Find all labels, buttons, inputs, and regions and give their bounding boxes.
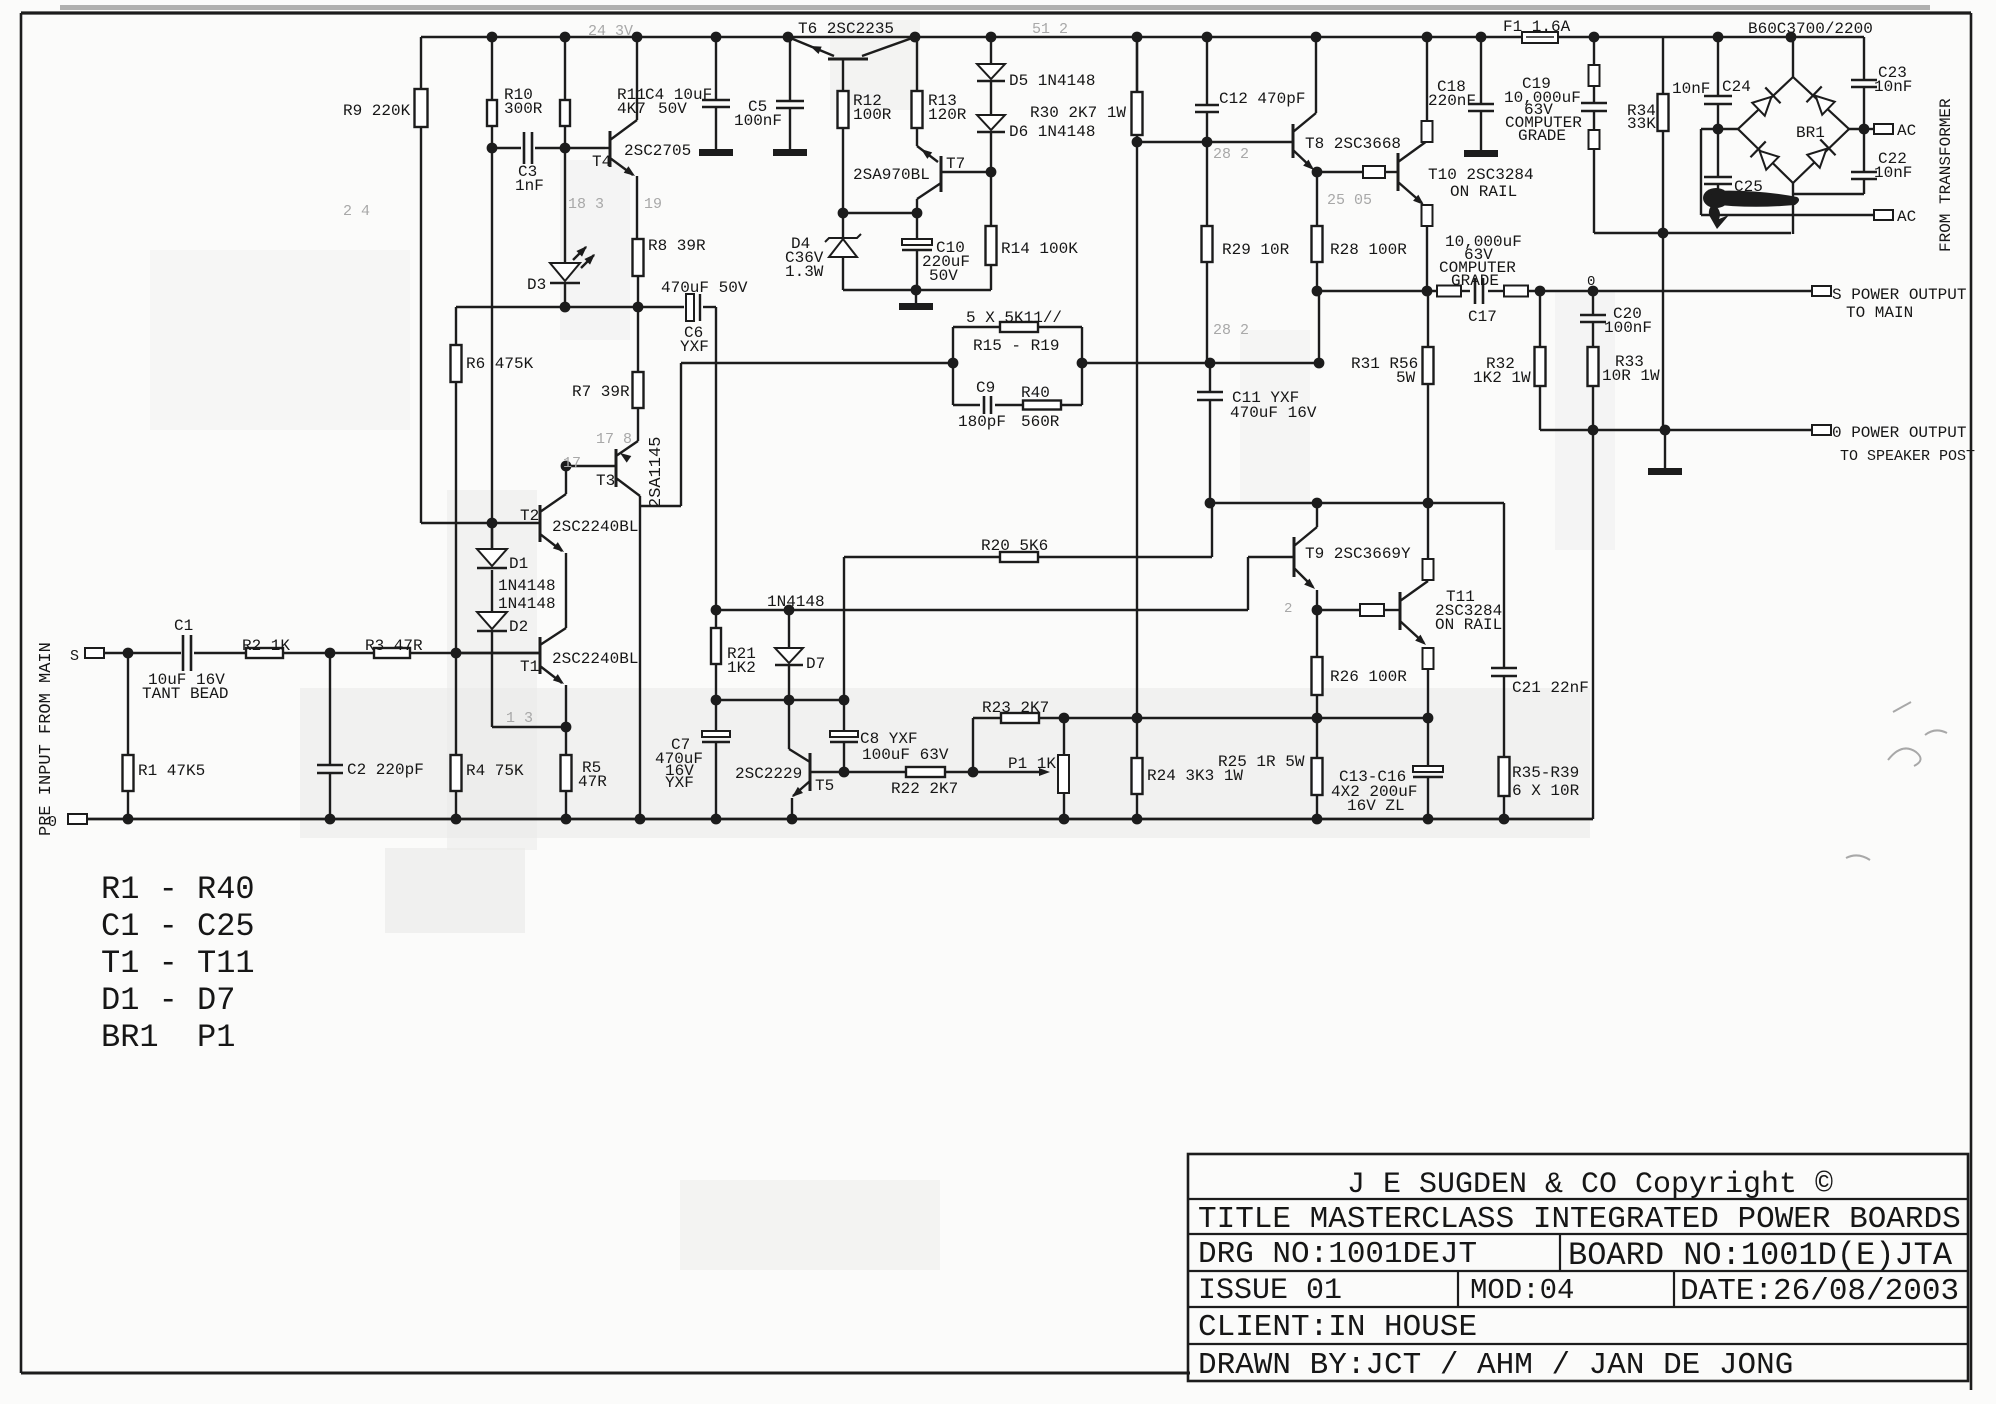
svg-text:1.3W: 1.3W: [785, 263, 824, 281]
ground under C10: [915, 290, 917, 303]
ferrite bead output left: [1437, 286, 1461, 297]
capacitor C22 10nF: [1863, 129, 1865, 171]
svg-text:J E SUGDEN & CO Copyright ©: J E SUGDEN & CO Copyright ©: [1347, 1168, 1833, 1202]
svg-text:100uF 63V: 100uF 63V: [862, 746, 949, 764]
svg-text:1K2: 1K2: [727, 659, 756, 677]
transistor T9 2SC3669Y: [1293, 537, 1296, 577]
svg-text:R35-R39: R35-R39: [1512, 764, 1579, 782]
svg-text:33K: 33K: [1627, 115, 1656, 133]
svg-text:AC: AC: [1897, 122, 1916, 140]
ferrite bead T10 emitter: [1422, 205, 1433, 226]
svg-text:C24: C24: [1722, 78, 1751, 96]
svg-text:1N4148: 1N4148: [498, 577, 556, 595]
svg-text:R28 100R: R28 100R: [1330, 241, 1407, 259]
svg-text:D5 1N4148: D5 1N4148: [1009, 72, 1095, 90]
svg-text:R8 39R: R8 39R: [648, 237, 706, 255]
svg-text:0 POWER OUTPUT: 0 POWER OUTPUT: [1832, 424, 1966, 442]
svg-text:R29 10R: R29 10R: [1222, 241, 1290, 259]
resistor network R15-R19: [952, 327, 954, 405]
ground under C5: [773, 149, 807, 156]
node T1 base junction: [451, 648, 462, 659]
svg-text:2: 2: [1284, 601, 1292, 617]
svg-text:220nF: 220nF: [1428, 92, 1476, 110]
svg-text:2SC2240BL: 2SC2240BL: [552, 650, 638, 668]
title block frame: [1188, 1154, 1968, 1381]
svg-text:6 X 10R: 6 X 10R: [1512, 782, 1580, 800]
capacitor C6: [686, 294, 694, 321]
svg-text:4K7: 4K7: [617, 100, 646, 118]
svg-text:16V ZL: 16V ZL: [1347, 797, 1405, 815]
transistor T2 2SC2240BL: [539, 505, 542, 542]
resistor R14 100K: [990, 172, 992, 226]
capacitor C19 computer grade: [1593, 37, 1595, 65]
svg-text:R1 - R40: R1 - R40: [101, 871, 255, 908]
svg-text:DRG NO:1001DEJT: DRG NO:1001DEJT: [1198, 1237, 1477, 1272]
svg-text:T10 2SC3284: T10 2SC3284: [1428, 166, 1534, 184]
wire feedback to output: [1082, 362, 1319, 364]
capacitor C24 10nF: [1717, 37, 1719, 95]
resistor R34 33K: [1662, 37, 1664, 94]
terminal S power output: [1812, 286, 1831, 296]
svg-text:2SA970BL: 2SA970BL: [853, 166, 930, 184]
capacitor C12 470pF: [1206, 37, 1208, 104]
resistor R28 100R: [1316, 172, 1318, 226]
svg-text:100R: 100R: [853, 106, 892, 124]
svg-text:300R: 300R: [504, 100, 543, 118]
svg-text:28 2: 28 2: [1213, 146, 1249, 163]
wire T2 base from R9: [421, 522, 540, 524]
svg-text:24 3V: 24 3V: [588, 23, 633, 40]
transistor T1 2SC2240BL: [539, 637, 542, 674]
wire D7 node line: [716, 609, 1248, 611]
resistor R5: [565, 727, 567, 755]
ferrite bead T11 base: [1317, 609, 1360, 611]
svg-text:C1: C1: [174, 617, 193, 635]
svg-text:TITLE MASTERCLASS INTEGRATED P: TITLE MASTERCLASS INTEGRATED POWER BOARD…: [1198, 1202, 1961, 1237]
wire driver node line: [1210, 502, 1504, 504]
svg-text:180pF: 180pF: [958, 413, 1006, 431]
svg-text:0: 0: [1587, 274, 1595, 290]
svg-text:25 05: 25 05: [1327, 192, 1372, 209]
svg-text:10R 1W: 10R 1W: [1602, 367, 1660, 385]
svg-text:5 X 5K11//: 5 X 5K11//: [966, 309, 1062, 327]
svg-text:28 2: 28 2: [1213, 322, 1249, 339]
svg-text:D2: D2: [509, 618, 528, 636]
resistor R9: [420, 37, 422, 89]
svg-text:470uF 50V: 470uF 50V: [661, 279, 748, 297]
potentiometer P1 1K: [973, 771, 1044, 773]
wire R33 to bottom rail: [1592, 430, 1594, 819]
capacitor C23 10nF: [1793, 36, 1864, 38]
terminal S input: [85, 648, 104, 658]
zener diode D4 C36V: [842, 213, 844, 239]
svg-text:C2 220pF: C2 220pF: [347, 761, 424, 779]
svg-text:YXF: YXF: [680, 338, 709, 356]
svg-text:T7: T7: [946, 155, 965, 173]
wire C21 branch: [1503, 503, 1505, 667]
svg-text:120R: 120R: [928, 106, 967, 124]
svg-text:T2: T2: [520, 507, 539, 525]
svg-text:50V: 50V: [929, 267, 958, 285]
ground centre 0V: [1664, 430, 1666, 468]
capacitor C5: [789, 37, 791, 100]
svg-text:T4: T4: [592, 153, 611, 171]
wire bottom rail: [88, 818, 1593, 821]
resistor R4: [455, 653, 457, 755]
transistor T11 2SC3284: [1399, 592, 1402, 630]
capacitor C25 10nF: [1717, 129, 1719, 177]
terminal AC lower: [1701, 214, 1874, 216]
svg-text:D1: D1: [509, 555, 528, 573]
svg-text:R26 100R: R26 100R: [1330, 668, 1407, 686]
resistor R29 10R: [1206, 142, 1208, 226]
node T8 emitter: [1312, 167, 1323, 178]
svg-text:FROM TRANSFORMER: FROM TRANSFORMER: [1937, 98, 1955, 252]
svg-text:R4 75K: R4 75K: [466, 762, 524, 780]
ferrite bead T10 collector: [1426, 141, 1428, 143]
resistor R35-R39 6 X 10R: [1499, 757, 1510, 796]
svg-text:S: S: [70, 648, 79, 665]
svg-text:18 3: 18 3: [568, 196, 604, 213]
node mid-rail junctions: [1059, 713, 1070, 724]
wire D3 branch: [564, 148, 566, 263]
capacitor C17: [1461, 290, 1470, 292]
node T3 base: [561, 461, 572, 472]
svg-text:10nF: 10nF: [1874, 164, 1912, 182]
svg-text:CLIENT:IN HOUSE: CLIENT:IN HOUSE: [1198, 1310, 1477, 1345]
svg-text:BR1: BR1: [1796, 124, 1825, 142]
svg-text:2SC2705: 2SC2705: [624, 142, 691, 160]
wire R34 node to ground: [1662, 233, 1664, 430]
svg-text:T1: T1: [520, 658, 539, 676]
wire R23 branch: [972, 718, 974, 772]
capacitor C3: [492, 147, 521, 149]
svg-text:F1 1.6A: F1 1.6A: [1503, 18, 1571, 36]
svg-text:1N4148: 1N4148: [767, 593, 825, 611]
svg-text:C21 22nF: C21 22nF: [1512, 679, 1589, 697]
svg-text:C17: C17: [1468, 308, 1497, 326]
resistor R8: [633, 239, 644, 276]
node T9 emitter: [1312, 605, 1323, 616]
diode D7: [788, 610, 790, 648]
resistor R3 47R: [374, 648, 410, 658]
svg-text:47R: 47R: [578, 773, 607, 791]
wire S output rail: [1317, 290, 1437, 292]
svg-text:T6 2SC2235: T6 2SC2235: [798, 20, 894, 38]
svg-text:DATE:26/08/2003: DATE:26/08/2003: [1680, 1274, 1959, 1309]
capacitor C21 22nF: [1491, 667, 1517, 670]
svg-text:TO MAIN: TO MAIN: [1846, 304, 1913, 322]
capacitor C11 470uF: [1209, 363, 1211, 392]
terminal AC upper: [1859, 124, 1870, 135]
svg-text:R40: R40: [1021, 384, 1050, 402]
svg-text:PRE INPUT FROM MAIN: PRE INPUT FROM MAIN: [37, 642, 56, 836]
svg-text:5W: 5W: [1396, 369, 1416, 387]
diode D5 1N4148: [990, 37, 992, 64]
svg-text:R7 39R: R7 39R: [572, 383, 630, 401]
resistor R1 47K5: [127, 653, 129, 755]
wire PSU bottom line: [1594, 232, 1791, 234]
ferrite bead output right: [1504, 286, 1528, 297]
svg-text:YXF: YXF: [665, 774, 694, 792]
capacitor C1: [182, 635, 185, 671]
wire D4 C10 ground node: [843, 289, 991, 291]
svg-text:P1 1K: P1 1K: [1008, 755, 1056, 773]
svg-text:D6 1N4148: D6 1N4148: [1009, 123, 1095, 141]
wire D2 to R5: [492, 726, 566, 728]
wire bias chain vertical: [491, 148, 493, 549]
node rail junction dots: [487, 32, 498, 43]
terminal 0 power output: [1812, 425, 1831, 435]
scan top edge smudge: [60, 5, 1930, 10]
svg-text:2 4: 2 4: [343, 203, 370, 220]
capacitor C10 220uF: [916, 213, 918, 239]
transistor T6 2SC2235: [828, 58, 868, 61]
resistor R6: [455, 307, 457, 345]
capacitor C7 470uF: [715, 700, 717, 731]
svg-text:R25 1R 5W: R25 1R 5W: [1218, 753, 1305, 771]
resistor R12 100R: [838, 91, 849, 128]
wire 0V output line: [1540, 429, 1812, 431]
svg-text:19: 19: [644, 196, 662, 213]
transistor T7 2SA970BL: [940, 156, 943, 192]
capacitor C20 100nF: [1592, 291, 1594, 314]
wire C6 to R21 chain: [715, 307, 717, 610]
capacitor C2 220pF: [329, 653, 331, 764]
svg-text:1K2 1W: 1K2 1W: [1473, 369, 1531, 387]
svg-text:D1 - D7: D1 - D7: [101, 982, 235, 1019]
svg-text:MOD:04: MOD:04: [1470, 1274, 1574, 1307]
resistor R11: [564, 37, 566, 100]
svg-text:B60C3700/2200: B60C3700/2200: [1748, 20, 1873, 38]
svg-text:C12 470pF: C12 470pF: [1219, 90, 1305, 108]
wire C6 node line: [456, 306, 684, 308]
diode D1 1N4148: [491, 523, 493, 549]
svg-text:R6 475K: R6 475K: [466, 355, 534, 373]
resistor R33 10R 1W: [1588, 347, 1599, 386]
resistor R31 R56 5W: [1427, 291, 1429, 347]
diode D3 LED: [550, 263, 580, 281]
wire feedback line: [641, 505, 681, 507]
svg-text:R15 - R19: R15 - R19: [973, 337, 1059, 355]
fuse F1 1.6A: [1522, 32, 1558, 43]
resistor R7: [637, 307, 639, 372]
svg-text:470uF 16V: 470uF 16V: [1230, 404, 1317, 422]
svg-text:1N4148: 1N4148: [498, 595, 556, 613]
ferrite bead T11 emitter: [1423, 648, 1434, 669]
svg-text:51 2: 51 2: [1032, 21, 1068, 38]
diode D2 1N4148: [491, 570, 493, 612]
svg-text:TO SPEAKER POST: TO SPEAKER POST: [1840, 448, 1975, 465]
svg-text:R3 47R: R3 47R: [365, 637, 423, 655]
ground under C4: [699, 149, 733, 156]
svg-text:2SA1145: 2SA1145: [647, 437, 666, 508]
capacitor C8 100uF: [843, 700, 845, 731]
resistor R26 100R: [1316, 610, 1318, 657]
capacitor C18 220nF: [1480, 37, 1482, 103]
node R10 bottom: [487, 143, 498, 154]
svg-text:ON RAIL: ON RAIL: [1450, 183, 1517, 201]
svg-text:2SC2240BL: 2SC2240BL: [552, 518, 638, 536]
wire input line: [103, 652, 181, 654]
page frame border: [21, 11, 1971, 14]
svg-text:2SC2229: 2SC2229: [735, 765, 802, 783]
svg-text:D7: D7: [806, 655, 825, 673]
resistor R13 120R: [916, 37, 918, 91]
svg-text:1nF: 1nF: [515, 177, 544, 195]
svg-text:10nF: 10nF: [1672, 80, 1710, 98]
scan gray patches: [150, 20, 1615, 1270]
svg-text:10nF: 10nF: [1874, 78, 1912, 96]
svg-text:R23 2K7: R23 2K7: [982, 699, 1049, 717]
svg-text:ON RAIL: ON RAIL: [1435, 616, 1502, 634]
ground under C18: [1464, 150, 1498, 157]
svg-text:100nF: 100nF: [734, 112, 782, 130]
svg-text:50V: 50V: [658, 100, 687, 118]
svg-text:R1 47K5: R1 47K5: [138, 762, 205, 780]
transistor T10 2SC3284: [1397, 153, 1400, 191]
svg-text:T9 2SC3669Y: T9 2SC3669Y: [1305, 545, 1411, 563]
resistor R20 5K6: [1000, 552, 1038, 562]
svg-text:DRAWN BY:JCT / AHM / JAN DE JO: DRAWN BY:JCT / AHM / JAN DE JONG: [1198, 1348, 1793, 1383]
terminal 0 input: [68, 814, 87, 824]
node bottom rail dots: [123, 814, 134, 825]
node T7 base: [986, 167, 997, 178]
wire mid vertical line: [1136, 37, 1138, 718]
svg-text:R30 2K7 1W: R30 2K7 1W: [1030, 104, 1126, 122]
svg-text:R22 2K7: R22 2K7: [891, 780, 958, 798]
svg-text:T8 2SC3668: T8 2SC3668: [1305, 135, 1401, 153]
wire T5 collector node line: [716, 699, 844, 701]
wire R20 line: [844, 556, 1212, 558]
capacitor C13-C16 4X2 200uF: [1427, 718, 1429, 766]
resistor R22 2K7: [906, 767, 945, 777]
resistor R10: [491, 37, 493, 100]
transistor T8 2SC3668: [1292, 124, 1295, 158]
resistor R25 1R 5W: [1316, 718, 1318, 758]
resistor R21 1K2: [715, 610, 717, 628]
node T8 base line: [1137, 141, 1293, 143]
svg-text:T3: T3: [596, 472, 615, 490]
svg-text:BR1 P1: BR1 P1: [101, 1019, 235, 1056]
svg-text:R20 5K6: R20 5K6: [981, 537, 1048, 555]
svg-text:17: 17: [563, 455, 581, 472]
svg-text:R9 220K: R9 220K: [343, 102, 411, 120]
svg-text:0: 0: [48, 814, 57, 831]
ferrite bead T10 base: [1318, 171, 1363, 173]
marker blob over C25: [1703, 188, 1729, 208]
resistor R2 1K: [246, 648, 283, 658]
svg-text:GRADE: GRADE: [1451, 272, 1499, 290]
capacitor C4: [715, 37, 717, 99]
diode D6 1N4148: [990, 81, 992, 115]
svg-text:C9: C9: [976, 379, 995, 397]
svg-text:BOARD NO:1001D(E)JTA: BOARD NO:1001D(E)JTA: [1568, 1237, 1953, 1274]
resistor R23 2K7: [1001, 713, 1039, 723]
svg-text:R2 1K: R2 1K: [242, 637, 290, 655]
resistor R24 3K3 1W: [1136, 718, 1138, 758]
wire top positive rail: [421, 36, 1791, 39]
svg-text:17 8: 17 8: [596, 431, 632, 448]
pencil scribbles right margin: [1846, 702, 1947, 860]
resistor R32 1K2 1W: [1539, 291, 1541, 347]
svg-text:R14 100K: R14 100K: [1001, 240, 1078, 258]
svg-text:T5: T5: [815, 777, 834, 795]
svg-text:ISSUE 01: ISSUE 01: [1198, 1274, 1342, 1308]
svg-text:S POWER OUTPUT: S POWER OUTPUT: [1832, 286, 1966, 304]
svg-text:T1 - T11: T1 - T11: [101, 945, 255, 982]
transistor T4 2SC2705: [609, 131, 612, 167]
wire T7 lower node: [843, 212, 917, 214]
svg-text:TANT BEAD: TANT BEAD: [142, 685, 228, 703]
svg-text:1 3: 1 3: [506, 710, 533, 727]
svg-text:C1 - C25: C1 - C25: [101, 908, 255, 945]
ferrite bead T11 collector: [1423, 559, 1434, 580]
resistor R30 2K7 1W: [1136, 37, 1138, 92]
svg-text:100nF: 100nF: [1604, 319, 1652, 337]
svg-text:560R: 560R: [1021, 413, 1060, 431]
svg-text:GRADE: GRADE: [1518, 127, 1566, 145]
svg-text:AC: AC: [1897, 208, 1916, 226]
bridge rectifier BR1: [1738, 77, 1849, 183]
svg-text:D3: D3: [527, 276, 546, 294]
transistor T3 2SA1145: [615, 449, 618, 487]
transistor T5 2SC2229: [809, 753, 812, 791]
